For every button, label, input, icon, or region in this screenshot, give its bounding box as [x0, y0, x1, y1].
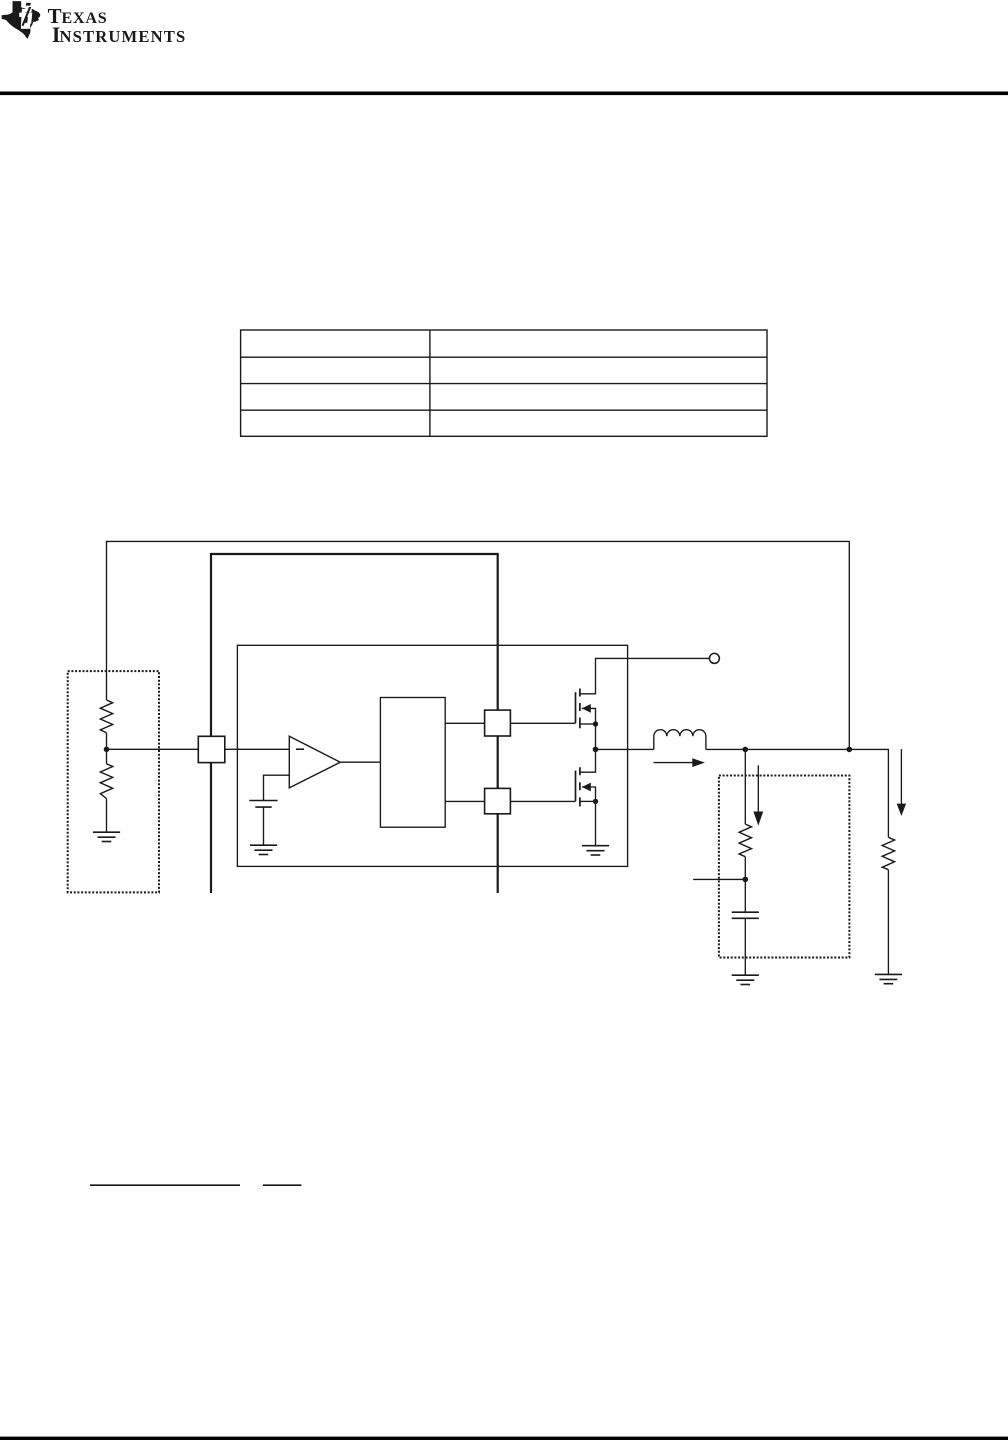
- svg-text:NSTRUMENTS: NSTRUMENTS: [60, 27, 186, 46]
- svg-text:EXAS: EXAS: [62, 10, 107, 27]
